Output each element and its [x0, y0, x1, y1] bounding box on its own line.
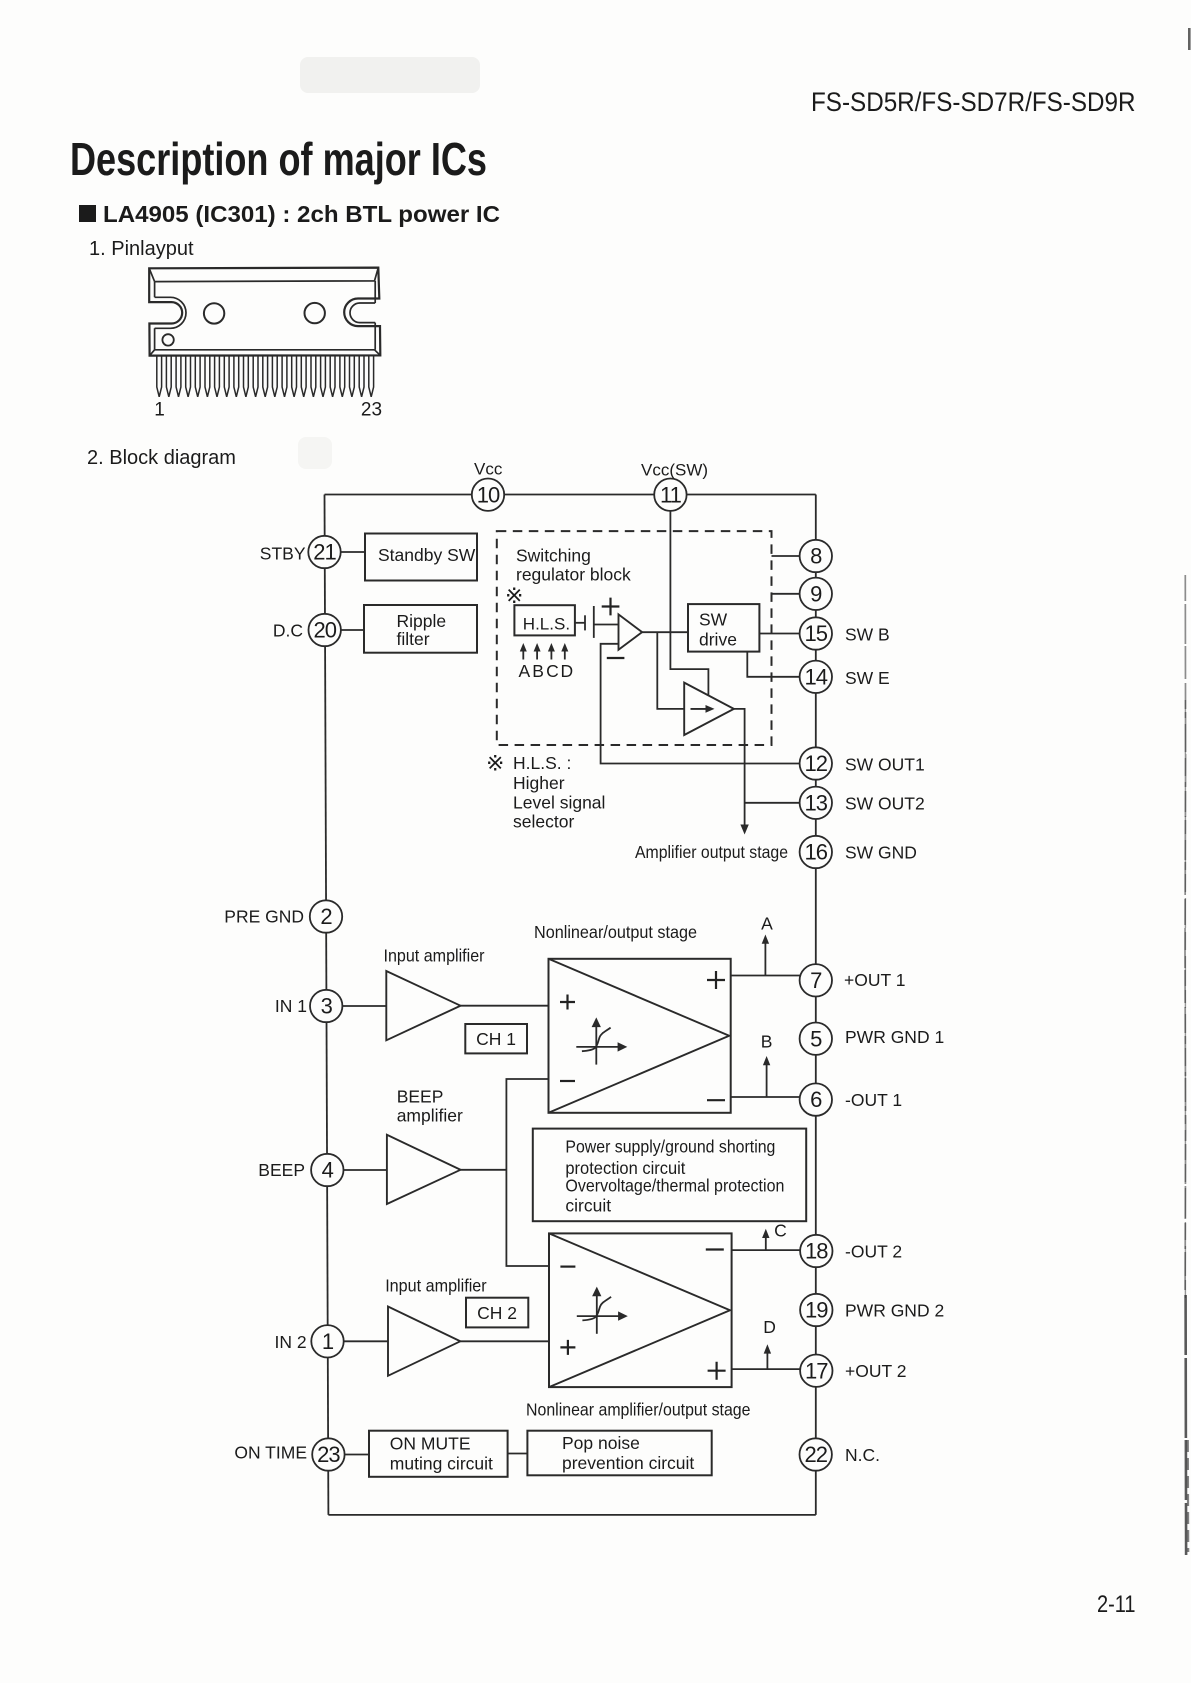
- svg-text:SW B: SW B: [845, 625, 890, 645]
- ch1 stage triangle: [549, 959, 730, 1113]
- wire on mute to pop noise: [508, 1453, 528, 1455]
- svg-text:Nonlinear/output stage: Nonlinear/output stage: [534, 922, 697, 942]
- svg-text:20: 20: [313, 618, 336, 643]
- op-amp BEEP amplifier: [387, 1135, 461, 1204]
- svg-text:19: 19: [805, 1298, 828, 1323]
- wire comparator input bar: [593, 606, 595, 638]
- svg-text:prevention circuit: prevention circuit: [562, 1453, 694, 1473]
- svg-text:11: 11: [660, 482, 682, 507]
- svg-text:FS-SD5R/FS-SD7R/FS-SD9R: FS-SD5R/FS-SD7R/FS-SD9R: [811, 87, 1136, 117]
- svg-text:4: 4: [322, 1158, 334, 1183]
- svg-text:PWR GND 1: PWR GND 1: [845, 1027, 944, 1047]
- svg-text:H.L.S.: H.L.S.: [523, 615, 570, 634]
- svg-text:amplifier: amplifier: [397, 1106, 463, 1126]
- pin 1 label: [154, 400, 165, 421]
- pin 7: [800, 964, 832, 996]
- svg-text:ON MUTE: ON MUTE: [390, 1434, 471, 1454]
- A B C D letters: [518, 661, 573, 681]
- arrow D: [766, 1350, 768, 1369]
- wire junction to sw amp input: [657, 632, 684, 709]
- wire input amp 1 to ch1 stage: [461, 1005, 549, 1007]
- pin 12: [800, 747, 832, 779]
- svg-text:C: C: [774, 1221, 787, 1241]
- wire dashed box to pin9: [772, 593, 800, 595]
- pin 6: [800, 1083, 832, 1115]
- SW drive box: [688, 604, 759, 652]
- svg-text:Description of major ICs: Description of major ICs: [70, 133, 487, 185]
- wire pin1 to input amp 2: [344, 1340, 388, 1342]
- svg-text:2. Block diagram: 2. Block diagram: [87, 447, 236, 469]
- svg-text:17: 17: [805, 1358, 828, 1383]
- subsection 1 label: [89, 238, 194, 260]
- svg-text:9: 9: [810, 581, 822, 606]
- scan noise right edge: [1185, 28, 1189, 1555]
- IC package pins 1-23: [157, 356, 374, 397]
- IC package mounting hole left: [204, 303, 224, 323]
- svg-text:-OUT 2: -OUT 2: [845, 1242, 902, 1262]
- protection circuit box: [533, 1129, 806, 1222]
- wire top rail: [325, 494, 816, 496]
- wire to pin13: [745, 802, 800, 804]
- svg-text:STBY: STBY: [260, 544, 306, 564]
- pin 13: [800, 787, 832, 819]
- dashed switching regulator block: [497, 531, 772, 745]
- wire pin23 to on mute: [345, 1454, 369, 1456]
- svg-text:16: 16: [805, 840, 828, 865]
- svg-text:BEEP: BEEP: [258, 1160, 305, 1180]
- svg-text:selector: selector: [513, 812, 574, 832]
- svg-text:SW OUT1: SW OUT1: [845, 755, 925, 775]
- ch1 input plus: [560, 995, 575, 1010]
- nonlinear curve symbol ch1: [576, 1027, 619, 1065]
- IC package index hole: [162, 334, 173, 345]
- wire pin3 to input amp 1: [343, 1005, 387, 1007]
- svg-text:circuit: circuit: [565, 1196, 611, 1216]
- wire beep amp output: [461, 1169, 507, 1171]
- pin 22: [800, 1438, 832, 1470]
- pin 19: [800, 1294, 832, 1326]
- svg-text:Level signal: Level signal: [513, 793, 605, 813]
- H.L.S. box: [514, 605, 575, 635]
- svg-text:3: 3: [321, 994, 333, 1019]
- svg-text:23: 23: [317, 1442, 340, 1467]
- pin 10: [472, 479, 504, 511]
- pin 21: [308, 536, 340, 568]
- svg-text:Switching: Switching: [516, 546, 591, 566]
- IC package outline: [149, 268, 380, 356]
- pin 5: [800, 1022, 832, 1054]
- svg-text:Overvoltage/thermal protection: Overvoltage/thermal protection: [565, 1176, 784, 1196]
- arrow A: [764, 941, 766, 976]
- svg-text:Higher: Higher: [513, 773, 565, 793]
- ch2 input plus: [560, 1340, 575, 1355]
- pin 11: [654, 479, 686, 511]
- node B label: [761, 1032, 773, 1052]
- svg-text:6: 6: [810, 1087, 822, 1112]
- svg-text:SW OUT2: SW OUT2: [845, 794, 925, 814]
- svg-text:PRE GND: PRE GND: [224, 907, 304, 927]
- wire input amp 2 to ch2 stage: [460, 1340, 549, 1342]
- svg-text:D.C: D.C: [273, 621, 303, 641]
- op-amp comparator (switching reg): [619, 614, 643, 649]
- svg-text:8: 8: [810, 544, 822, 569]
- node A label: [761, 914, 773, 934]
- wire pin11 drop: [670, 511, 708, 696]
- svg-text:※: ※: [486, 751, 504, 776]
- svg-text:Ripple: Ripple: [397, 611, 447, 631]
- pin 23: [312, 1438, 344, 1470]
- svg-text:SW GND: SW GND: [845, 843, 917, 863]
- CH1 label box: [465, 1024, 527, 1053]
- wire pin12 feedback: [601, 644, 800, 764]
- svg-text:Input amplifier: Input amplifier: [384, 946, 485, 966]
- wire pin4 to beep amp: [344, 1169, 387, 1171]
- ch2 nonlinear output stage box: [549, 1233, 732, 1387]
- svg-text:+OUT 2: +OUT 2: [845, 1361, 906, 1381]
- svg-text:H.L.S. :: H.L.S. :: [513, 753, 571, 773]
- wire pin20 to ripple: [341, 629, 364, 631]
- sw amp internal arrow: [691, 705, 715, 713]
- wire bar to comparator: [594, 624, 619, 626]
- wire ch2 +out to pin17: [732, 1368, 801, 1370]
- plus minus signs: [560, 598, 726, 1380]
- wire comparator output: [642, 631, 688, 633]
- wire ch2 -out to pin18: [732, 1249, 801, 1251]
- wire pin21 to standby: [341, 551, 365, 553]
- arrow C: [765, 1235, 767, 1251]
- node D label: [763, 1317, 776, 1337]
- wire dashed box to pin8: [772, 555, 800, 557]
- svg-text:5: 5: [810, 1026, 822, 1051]
- svg-text:B: B: [532, 661, 544, 681]
- svg-text:drive: drive: [699, 630, 737, 650]
- svg-text:C: C: [546, 661, 559, 681]
- svg-text:Vcc: Vcc: [474, 460, 503, 479]
- IC package bevel edges: [149, 268, 380, 356]
- output arrows A B C D: [765, 941, 767, 1369]
- ch2 input minus: [560, 1265, 575, 1267]
- scan smudge top: [300, 57, 480, 93]
- svg-text:23: 23: [361, 400, 382, 421]
- ch1 input minus: [560, 1080, 575, 1082]
- svg-text:D: D: [560, 661, 573, 681]
- comparator minus: [607, 657, 625, 659]
- section heading square: [79, 205, 96, 222]
- svg-text:2: 2: [320, 904, 332, 929]
- wire bottom rail: [328, 1514, 815, 1516]
- svg-text:D: D: [763, 1317, 776, 1337]
- page title: [70, 133, 487, 185]
- svg-text:N.C.: N.C.: [845, 1445, 880, 1465]
- wire sw amp output: [734, 709, 745, 828]
- svg-text:+OUT 1: +OUT 1: [844, 970, 905, 990]
- wire left bus: [325, 495, 329, 1515]
- svg-text:A: A: [761, 914, 773, 934]
- ch1 output plus: [707, 971, 725, 989]
- wire ch1 +out to pin7: [731, 975, 800, 977]
- svg-text:Power supply/ground shorting: Power supply/ground shorting: [565, 1137, 775, 1157]
- svg-text:A: A: [518, 661, 530, 681]
- pin 8: [800, 540, 832, 572]
- svg-text:SW E: SW E: [845, 668, 890, 688]
- svg-text:10: 10: [477, 482, 500, 507]
- pin 14: [800, 661, 832, 693]
- page number: [1097, 1591, 1136, 1618]
- svg-text:CH 2: CH 2: [477, 1303, 517, 1323]
- pin 1: [311, 1325, 343, 1357]
- section heading: [103, 201, 500, 227]
- ch2 stage triangle: [549, 1233, 730, 1387]
- svg-text:7: 7: [810, 968, 822, 993]
- svg-text:regulator block: regulator block: [516, 565, 631, 585]
- pin 9: [800, 578, 832, 610]
- svg-text:Pop noise: Pop noise: [562, 1433, 640, 1453]
- svg-text:Amplifier output stage: Amplifier output stage: [635, 842, 788, 862]
- subsection 2 label: [87, 447, 236, 469]
- svg-text:Vcc(SW): Vcc(SW): [641, 461, 708, 480]
- svg-text:15: 15: [805, 621, 828, 646]
- standby SW box: [365, 534, 477, 581]
- svg-text:1. Pinlayput: 1. Pinlayput: [89, 238, 194, 260]
- svg-text:B: B: [761, 1032, 773, 1052]
- ON MUTE box: [369, 1431, 508, 1477]
- svg-text:-OUT 1: -OUT 1: [845, 1090, 902, 1110]
- op-amp input amplifier 1: [386, 971, 460, 1040]
- pin 3: [310, 990, 342, 1022]
- op-amp SW output amp: [684, 683, 734, 735]
- svg-text:22: 22: [804, 1442, 827, 1467]
- svg-text:PWR GND 2: PWR GND 2: [845, 1301, 944, 1321]
- IC package mounting hole right: [305, 303, 325, 323]
- svg-text:IN 2: IN 2: [274, 1332, 306, 1352]
- svg-text:14: 14: [805, 664, 828, 689]
- pin 16: [800, 836, 832, 868]
- arrow B: [766, 1063, 768, 1098]
- node C label: [774, 1221, 787, 1241]
- wire HLS coupling tick: [584, 615, 586, 630]
- wire ch1 -out to pin6: [731, 1096, 800, 1098]
- svg-text:18: 18: [805, 1239, 828, 1264]
- ch1 nonlinear output stage box: [549, 959, 731, 1113]
- svg-text:21: 21: [313, 540, 336, 565]
- pin 17: [800, 1355, 832, 1387]
- wire right bus: [815, 495, 817, 1515]
- wire HLS output: [575, 622, 585, 624]
- CH2 label box: [466, 1298, 528, 1328]
- wire sw drive bottom to pin14: [747, 652, 799, 677]
- comparator plus: [602, 598, 620, 616]
- arrow down amplifier output stage: [740, 825, 748, 835]
- pop noise box: [527, 1431, 711, 1476]
- ch2 output minus: [706, 1248, 724, 1250]
- svg-text:Input amplifier: Input amplifier: [385, 1276, 487, 1296]
- pin 18: [800, 1235, 832, 1267]
- pin 2: [310, 900, 342, 932]
- svg-text:ON TIME: ON TIME: [234, 1443, 307, 1463]
- svg-text:Standby SW: Standby SW: [378, 545, 476, 565]
- pin 20: [309, 614, 341, 646]
- svg-text:Nonlinear amplifier/output sta: Nonlinear amplifier/output stage: [526, 1400, 751, 1420]
- svg-text:13: 13: [805, 790, 828, 815]
- wire ch1 feedback bus: [506, 1079, 549, 1266]
- svg-text:filter: filter: [397, 629, 430, 649]
- op-amp input amplifier 2: [388, 1307, 460, 1376]
- header model text: [811, 87, 1136, 117]
- svg-text:BEEP: BEEP: [397, 1087, 444, 1107]
- svg-text:muting circuit: muting circuit: [390, 1454, 493, 1474]
- ripple filter box: [364, 605, 477, 653]
- pin 23 label: [361, 400, 382, 421]
- svg-text:SW: SW: [699, 610, 728, 630]
- ch1 output minus: [707, 1099, 725, 1101]
- svg-text:LA4905 (IC301) : 2ch BTL power: LA4905 (IC301) : 2ch BTL power IC: [103, 201, 500, 227]
- wire sw drive to pin15: [759, 633, 799, 635]
- svg-text:1: 1: [154, 400, 165, 421]
- svg-text:2-11: 2-11: [1097, 1591, 1136, 1618]
- svg-text:※: ※: [505, 583, 523, 608]
- svg-text:1: 1: [322, 1329, 334, 1354]
- svg-text:IN 1: IN 1: [275, 996, 307, 1016]
- ch2 output plus: [708, 1362, 726, 1380]
- pin 15: [800, 617, 832, 649]
- nonlinear curve symbol ch2: [577, 1296, 620, 1334]
- svg-text:12: 12: [805, 751, 828, 776]
- svg-text:CH 1: CH 1: [476, 1029, 516, 1049]
- pin 4: [311, 1154, 343, 1186]
- A B C D selector arrows: [523, 648, 565, 660]
